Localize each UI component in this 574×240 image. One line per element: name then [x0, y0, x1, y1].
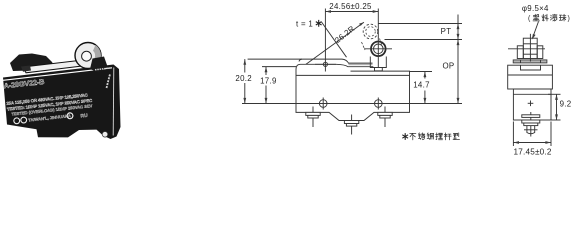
case outline [296, 70, 410, 121]
svg-text:24.56±0.25: 24.56±0.25 [329, 2, 372, 11]
svg-text:26.2R: 26.2R [333, 24, 356, 45]
dim 14.7 [410, 72, 433, 104]
hinge hump on top [10, 54, 53, 72]
bottom right screw head [102, 132, 108, 138]
svg-text:17.45±0.2: 17.45±0.2 [514, 147, 552, 156]
cover parting line [296, 74, 410, 76]
hole centerline (long) [242, 103, 462, 105]
svg-text:(: ( [528, 16, 531, 23]
roller clevis (photo) [90, 57, 108, 73]
svg-text:20.2: 20.2 [235, 74, 252, 83]
svg-text:RU: RU [80, 113, 88, 120]
lever hinge detail [21, 66, 31, 72]
pivot [323, 62, 327, 66]
case top-left corner arc [296, 64, 301, 69]
svg-text:φ9.5×4: φ9.5×4 [522, 4, 549, 13]
roller front: inner [374, 44, 384, 54]
svg-text:OP: OP [442, 61, 454, 70]
svg-text:9.2: 9.2 [560, 99, 572, 108]
svg-text:PT: PT [441, 27, 452, 36]
side roller centerlines [529, 34, 531, 62]
dim 17.9 [260, 67, 296, 104]
side lower block [513, 89, 551, 120]
lever gray strip [349, 64, 373, 66]
side bracket plates [517, 46, 523, 59]
dim 17.45 [513, 122, 552, 157]
side center mark [528, 102, 534, 104]
roller centerlines [364, 48, 392, 50]
ratings tiny text rows [6, 92, 94, 127]
side face small text [107, 74, 111, 88]
PT/OP reference lines [378, 23, 462, 25]
terminal screw right [378, 107, 392, 128]
svg-text:t = 1: t = 1 [296, 19, 313, 28]
side parting line [508, 74, 553, 76]
side lever end-on [513, 60, 547, 63]
side plunger boss [521, 65, 541, 70]
roller bracket [370, 57, 386, 68]
lever top line [299, 59, 373, 63]
switch body (black block) [3, 65, 121, 140]
side roller [523, 38, 537, 58]
dim 20.2 [235, 59, 302, 103]
roller (photo) [75, 43, 101, 69]
terminal screw left [306, 107, 320, 128]
roller front: outer [371, 42, 386, 57]
svg-text:): ) [568, 16, 570, 23]
side upper block [508, 65, 553, 89]
dashed roller (free position) [363, 24, 378, 39]
right corner edge highlight [112, 68, 115, 136]
side lower internal line [513, 93, 551, 95]
dim 9.2 [548, 94, 571, 120]
bracket tab / plunger [375, 68, 383, 71]
label 26.2R [306, 22, 364, 64]
svg-text:17.9: 17.9 [260, 76, 277, 85]
lever bottom line [301, 64, 374, 66]
dim PT [441, 15, 460, 104]
mounting hole left [319, 100, 327, 108]
side bottom screw [522, 112, 540, 137]
top edge highlight [3, 68, 112, 81]
mounting hole right [375, 100, 383, 108]
dashed bracket phantom [362, 42, 366, 50]
dim 24.56 [325, 2, 378, 13]
terminal screw middle [344, 115, 358, 135]
note: stainless steel lever type [402, 133, 459, 140]
dim OP [442, 40, 459, 104]
svg-text:14.7: 14.7 [413, 80, 430, 89]
label t=1 [296, 19, 347, 57]
lever arm (photo) [23, 60, 87, 73]
label phi 9.5x4 [522, 4, 570, 40]
